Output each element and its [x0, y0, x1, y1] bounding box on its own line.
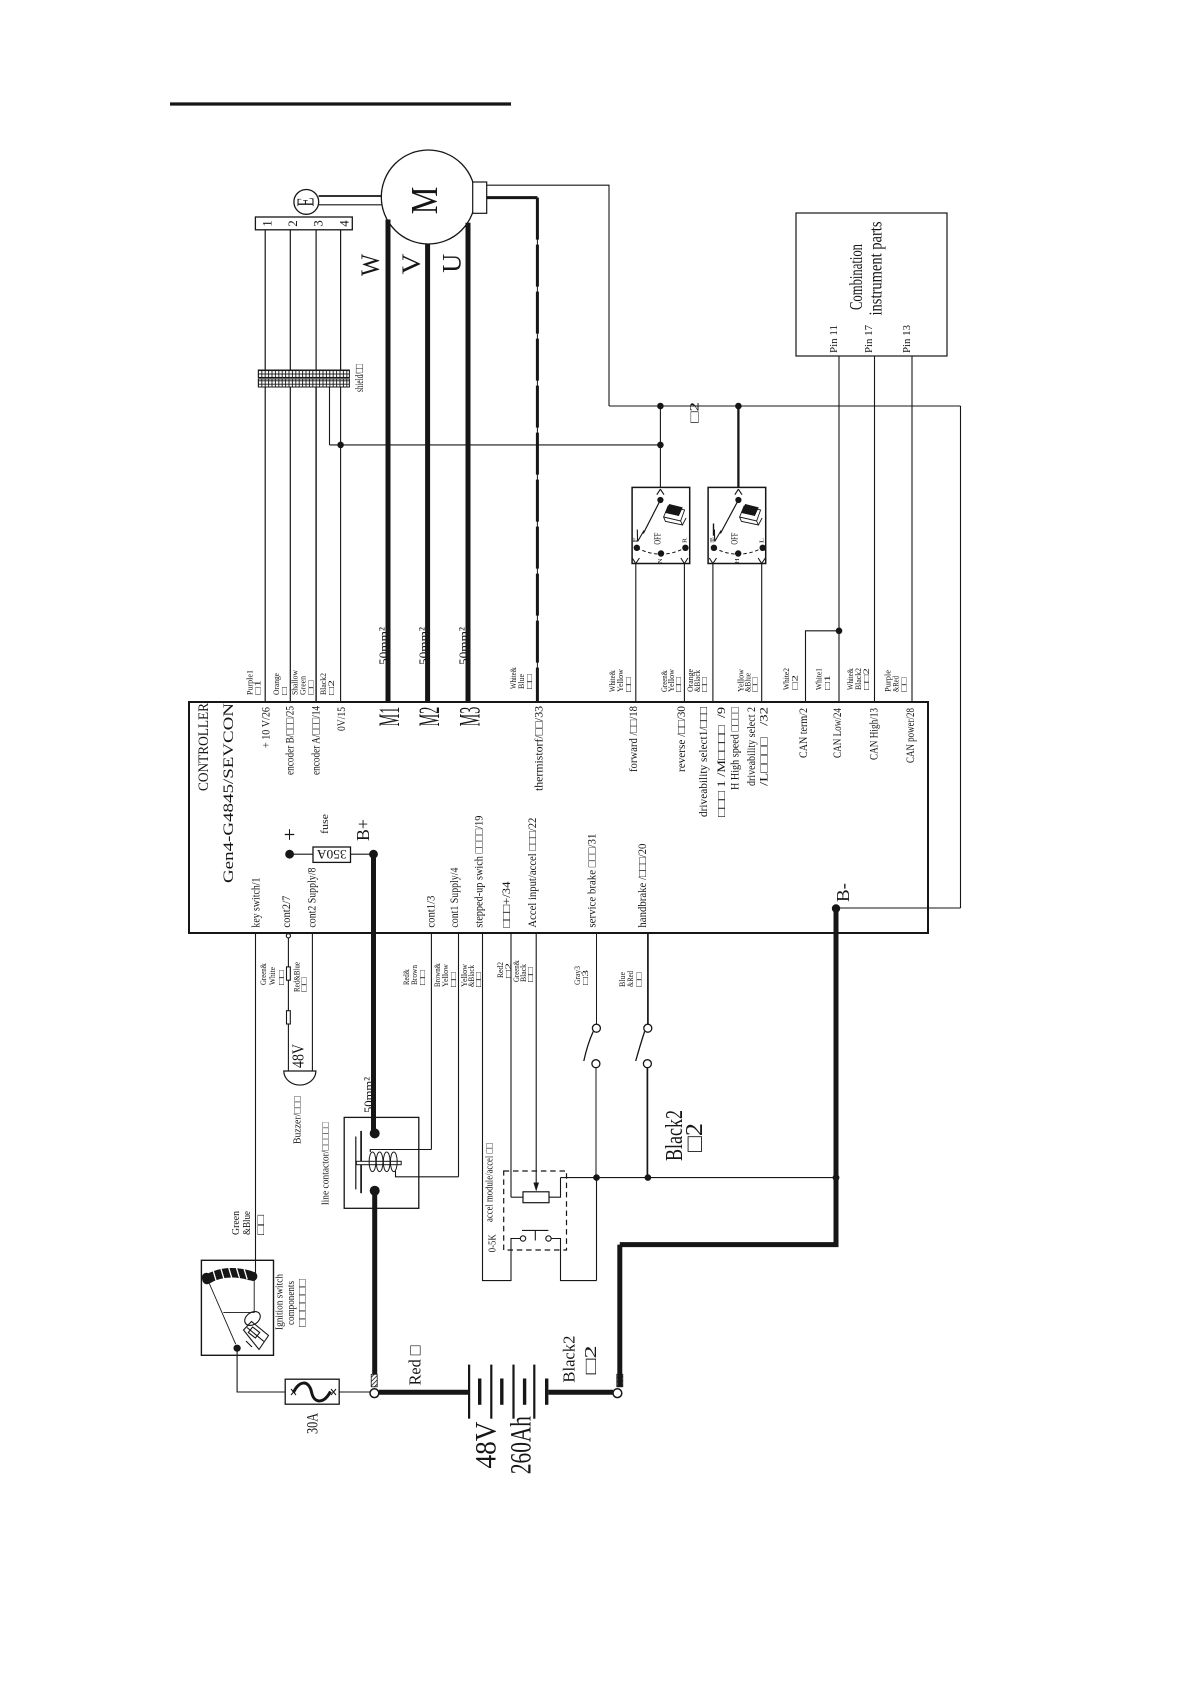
svg-text:stepped-up swich □□□□/19: stepped-up swich □□□□/19: [473, 815, 485, 927]
svg-text:3: 3: [311, 220, 325, 227]
svg-text:□□: □□: [448, 972, 458, 987]
svg-text:□□: □□: [299, 977, 309, 992]
svg-text:□2: □2: [790, 675, 800, 690]
svg-text:fuse: fuse: [320, 814, 331, 834]
svg-text:Pin 17: Pin 17: [864, 325, 875, 353]
svg-text:Pin 11: Pin 11: [829, 325, 840, 353]
svg-text:key switch/1: key switch/1: [250, 877, 262, 927]
svg-text:components: components: [286, 1281, 297, 1325]
svg-text:□2: □2: [326, 680, 336, 695]
svg-text:M1: M1: [373, 707, 406, 727]
svg-text:50mm²: 50mm²: [456, 627, 471, 665]
svg-text:service brake □□□/31: service brake □□□/31: [587, 833, 599, 927]
svg-text:R: R: [682, 538, 688, 543]
svg-text:OFF: OFF: [731, 533, 741, 545]
svg-text:M3: M3: [454, 707, 487, 727]
svg-text:□□: □□: [525, 967, 535, 982]
svg-text:CONTROLLER: CONTROLLER: [196, 703, 212, 791]
svg-text:thermistorf/□□/33: thermistorf/□□/33: [534, 706, 546, 791]
svg-text:B+: B+: [353, 819, 373, 841]
svg-text:cont2/7: cont2/7: [281, 895, 293, 927]
svg-text:&Blue: &Blue: [242, 1211, 253, 1235]
svg-text:Green: Green: [231, 1210, 242, 1235]
svg-text:CAN High/13: CAN High/13: [869, 708, 881, 760]
svg-text:□□: □□: [256, 1214, 267, 1235]
svg-text:E: E: [293, 198, 319, 207]
svg-text:W: W: [356, 254, 385, 276]
svg-text:□□: □□: [417, 970, 427, 985]
svg-text:□□2: □□2: [861, 668, 871, 690]
svg-text:□□□+/34: □□□+/34: [501, 881, 513, 927]
svg-text:350A: 350A: [316, 847, 347, 862]
svg-text:M2: M2: [413, 707, 446, 727]
svg-text:OFF: OFF: [654, 533, 664, 545]
svg-text:Ignition switch: Ignition switch: [275, 1273, 286, 1330]
svg-text:cont1/3: cont1/3: [425, 895, 437, 927]
svg-text:Gen4-G4845/SEVCON: Gen4-G4845/SEVCON: [221, 703, 237, 883]
svg-text:□□: □□: [524, 674, 534, 689]
svg-text:L: L: [760, 538, 766, 543]
svg-text:□2: □2: [682, 1123, 708, 1152]
svg-text:line contactor/□□□□□: line contactor/□□□□□: [321, 1122, 332, 1205]
svg-text:U: U: [438, 254, 467, 273]
svg-text:driveability select1/□□□: driveability select1/□□□: [698, 707, 710, 817]
svg-text:H: H: [735, 558, 741, 564]
svg-text:□□: □□: [623, 677, 633, 692]
svg-text:handbrake /□□□/20: handbrake /□□□/20: [637, 843, 649, 927]
svg-text:forward /□□/18: forward /□□/18: [628, 706, 640, 772]
svg-text:Pin 13: Pin 13: [902, 325, 913, 353]
svg-text:/L□□□□ /32: /L□□□□ /32: [759, 707, 771, 786]
svg-text:□□: □□: [634, 972, 644, 987]
svg-text:□□: □□: [699, 677, 709, 692]
svg-text:H High speed □□□□: H High speed □□□□: [730, 707, 742, 790]
svg-text:□□: □□: [276, 970, 286, 985]
svg-text:□□□ 1 /M□□□□ /9: □□□ 1 /M□□□□ /9: [716, 707, 728, 817]
svg-text:□□: □□: [473, 972, 483, 987]
svg-text:50mm²: 50mm²: [416, 627, 431, 665]
svg-text:0V/15: 0V/15: [336, 707, 348, 731]
svg-text:reverse /□□/30: reverse /□□/30: [676, 706, 688, 772]
svg-text:30A: 30A: [305, 1412, 322, 1434]
svg-text:instrument parts: instrument parts: [866, 221, 886, 315]
svg-text:48V: 48V: [469, 1421, 502, 1468]
svg-text:□: □: [279, 687, 289, 695]
svg-text:4: 4: [338, 220, 352, 227]
svg-text:0-5K: 0-5K: [487, 1234, 498, 1253]
svg-text:Black2: Black2: [559, 1336, 578, 1383]
svg-text:□1: □1: [822, 675, 832, 690]
svg-text:□1: □1: [253, 680, 263, 695]
svg-text:260Ah: 260Ah: [505, 1416, 538, 1474]
svg-text:Accel input/accel □□□/22: Accel input/accel □□□/22: [527, 817, 539, 927]
svg-text:48V: 48V: [289, 1043, 308, 1068]
svg-text:CAN Low/24: CAN Low/24: [832, 708, 844, 758]
svg-text:encoder A/□□□/14: encoder A/□□□/14: [310, 706, 322, 775]
svg-text:Buzzer/□□□: Buzzer/□□□: [293, 1096, 304, 1144]
svg-text:50mm²: 50mm²: [376, 627, 391, 665]
svg-text:shield/□□: shield/□□: [352, 364, 366, 392]
svg-text:□2: □2: [687, 402, 702, 423]
svg-text:□□□□□□: □□□□□□: [298, 1278, 309, 1327]
svg-text:Combination: Combination: [846, 244, 866, 310]
svg-text:V: V: [397, 253, 426, 274]
svg-text:Red □: Red □: [406, 1345, 425, 1385]
svg-text:HB: HB: [710, 538, 716, 543]
svg-text:+: +: [279, 828, 301, 841]
svg-text:cont1 Supply/4: cont1 Supply/4: [449, 867, 461, 927]
svg-text:M: M: [404, 187, 446, 215]
svg-text:encoder B/□□□/25: encoder B/□□□/25: [284, 706, 296, 775]
svg-text:1: 1: [260, 220, 274, 227]
svg-text:accel module/accel □□: accel module/accel □□: [485, 1143, 496, 1222]
svg-text:+ 10 V/26: + 10 V/26: [261, 707, 273, 748]
svg-text:□□: □□: [899, 677, 909, 692]
svg-text:B-: B-: [833, 883, 853, 902]
svg-text:□□: □□: [673, 677, 683, 692]
svg-text:□□: □□: [750, 677, 760, 692]
svg-text:cont2 Supply/8: cont2 Supply/8: [306, 867, 318, 927]
svg-text:50mm²: 50mm²: [361, 1077, 376, 1113]
svg-text:CAN term/2: CAN term/2: [798, 708, 810, 758]
svg-text:CAN power/28: CAN power/28: [905, 708, 917, 763]
svg-text:□2: □2: [581, 1345, 600, 1374]
svg-text:□3: □3: [580, 970, 590, 985]
svg-text:□□: □□: [306, 680, 316, 695]
svg-text:N: N: [658, 558, 664, 564]
svg-text:driveability select 2: driveability select 2: [746, 707, 758, 786]
svg-text:2: 2: [286, 220, 300, 227]
